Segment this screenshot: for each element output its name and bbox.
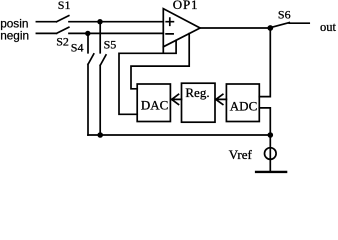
svg-text:S6: S6 bbox=[278, 7, 291, 21]
svg-text:negin: negin bbox=[0, 29, 29, 43]
svg-text:Vref: Vref bbox=[229, 147, 253, 162]
svg-text:S2: S2 bbox=[56, 35, 69, 49]
svg-text:S4: S4 bbox=[71, 41, 84, 55]
svg-text:S1: S1 bbox=[58, 0, 71, 12]
svg-text:DAC: DAC bbox=[141, 98, 168, 113]
svg-text:OP1: OP1 bbox=[173, 0, 199, 12]
svg-text:S5: S5 bbox=[104, 38, 117, 52]
svg-text:ADC: ADC bbox=[230, 99, 257, 114]
svg-text:Reg.: Reg. bbox=[185, 85, 209, 100]
svg-text:out: out bbox=[320, 20, 337, 34]
